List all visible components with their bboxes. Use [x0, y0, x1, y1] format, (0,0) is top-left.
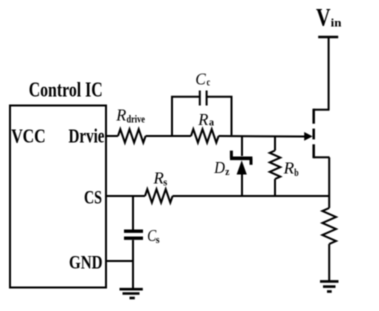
- capacitor C_s plates: [124, 229, 143, 232]
- svg-text:in: in: [331, 16, 342, 30]
- svg-text:R: R: [197, 110, 209, 129]
- V_in supply bar: [318, 36, 338, 39]
- wire: C_s bottom lead to GND rail: [132, 240, 134, 262]
- svg-text:z: z: [225, 166, 229, 178]
- svg-text:drive: drive: [127, 113, 145, 125]
- svg-text:s: s: [156, 234, 160, 246]
- wire: D_z to bottom rail: [241, 174, 243, 196]
- zener D_z cathode bar: [230, 157, 252, 161]
- wire: R_b top lead: [274, 137, 276, 151]
- wire: R_a to gate: [219, 135, 306, 138]
- svg-text:Control IC: Control IC: [29, 78, 103, 102]
- resistor R_a: [191, 129, 219, 142]
- wire: Drive pin to R_drive: [106, 135, 118, 137]
- resistor R_sense: [322, 208, 336, 244]
- wire: source down to sense node: [328, 157, 330, 196]
- wire: V_in to drain: [328, 37, 330, 110]
- resistor R_b: [270, 151, 281, 180]
- capacitor C_c branch left wire: [172, 97, 200, 135]
- svg-text:C: C: [195, 70, 206, 89]
- wire: R_sense to ground: [328, 244, 330, 281]
- zener diode D_z branch top wire: [241, 137, 243, 156]
- svg-text:a: a: [209, 117, 214, 129]
- capacitor C_c branch right wire: [207, 97, 232, 135]
- control IC box: [10, 106, 106, 288]
- ground symbol left stem: [132, 261, 134, 289]
- ground symbol right bars: [320, 280, 339, 283]
- svg-text:R: R: [283, 159, 295, 178]
- gate arrow: [304, 132, 312, 141]
- wire: C_s top lead: [132, 196, 134, 230]
- resistor R_sense top lead: [328, 196, 330, 208]
- zener D_z anode triangle: [237, 160, 247, 174]
- svg-text:GND: GND: [69, 253, 103, 274]
- svg-text:b: b: [294, 167, 298, 179]
- svg-text:c: c: [207, 77, 211, 89]
- wire: GND pin: [106, 260, 134, 262]
- ground symbol left bars: [120, 288, 143, 291]
- svg-text:s: s: [163, 177, 168, 189]
- wire: R_b bottom lead: [274, 179, 276, 196]
- resistor R_s: [145, 189, 173, 202]
- wire: R_drive to R_a: [146, 135, 191, 137]
- svg-text:R: R: [115, 106, 127, 125]
- wire: CS pin to C_s junction to R_s: [106, 195, 145, 197]
- capacitor C_c plates: [199, 91, 201, 106]
- wire: R_s to source node: [173, 195, 330, 197]
- resistor R_drive: [118, 129, 146, 142]
- MOSFET Q1 channel bar: [312, 129, 315, 140]
- MOSFET Q1 drain bar: [314, 109, 330, 111]
- svg-text:VCC: VCC: [11, 126, 46, 148]
- svg-text:CS: CS: [84, 188, 102, 209]
- svg-text:Drvie: Drvie: [69, 126, 105, 148]
- MOSFET Q1 source bar: [312, 144, 315, 158]
- svg-text:D: D: [213, 158, 225, 177]
- svg-text:V: V: [316, 4, 331, 31]
